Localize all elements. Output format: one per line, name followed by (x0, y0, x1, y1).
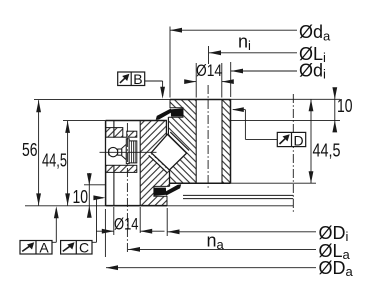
svg-text:C: C (79, 240, 89, 256)
svg-text:Ø14: Ø14 (114, 216, 139, 234)
svg-text:Ø14: Ø14 (196, 62, 222, 80)
svg-text:B: B (133, 71, 142, 87)
svg-text:44,5: 44,5 (313, 141, 341, 161)
svg-text:A: A (39, 240, 49, 256)
svg-text:D: D (294, 132, 304, 148)
svg-text:44,5: 44,5 (42, 150, 67, 170)
svg-text:10: 10 (73, 187, 89, 207)
svg-text:56: 56 (22, 140, 38, 160)
svg-text:10: 10 (337, 96, 353, 116)
svg-text:Ødi: Ødi (299, 61, 326, 82)
